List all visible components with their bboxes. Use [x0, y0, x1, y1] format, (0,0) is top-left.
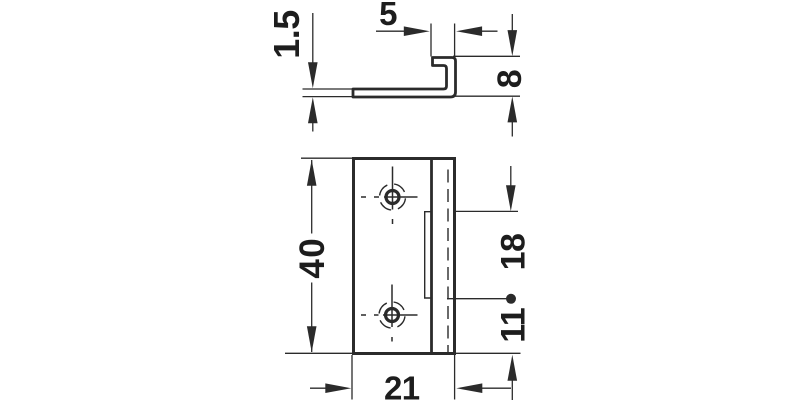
dimension 21: extension line right	[454, 355, 456, 400]
hole bottom: vertical centerline	[391, 285, 393, 328]
dimension 40: dimension line lower segment	[311, 283, 313, 353]
svg-text:1.5: 1.5	[266, 10, 307, 59]
dimension 1.5: dimension line below	[312, 122, 314, 132]
hole top: horizontal centerline	[384, 196, 418, 198]
dimension 5: dimension line left	[376, 30, 406, 32]
svg-text:40: 40	[293, 237, 332, 279]
hole top: vertical centerline dash below	[392, 219, 394, 224]
svg-text:21: 21	[384, 370, 420, 400]
dimension 18/11: shared extension line with dot terminator	[447, 298, 507, 300]
dot terminator	[506, 294, 516, 304]
dimension 5: extension line right	[454, 24, 456, 57]
front view: fold line	[430, 160, 433, 352]
dimension 40: arrow down	[307, 326, 317, 352]
hole bottom: dashed countersink circle	[377, 300, 408, 331]
dimension 18: dimension line above	[510, 166, 512, 187]
dimension 21: dimension line right	[480, 387, 511, 389]
dimension 8: arrow down	[508, 30, 518, 56]
hole top: dashed countersink circle	[377, 182, 408, 213]
hole top: horizontal centerline dashes left	[361, 196, 366, 198]
dimension 21: dimension line left	[310, 387, 327, 389]
hole top: circle	[386, 191, 399, 204]
dimension 1.5: arrow down	[308, 62, 318, 88]
dimension 8: arrow up	[508, 96, 518, 122]
dimension 21: arrow left	[456, 383, 482, 393]
front view: lip rectangle	[425, 212, 432, 298]
svg-text:18: 18	[495, 234, 533, 271]
dimension 18: extension line top	[455, 210, 518, 212]
dimension 8: extension line top	[453, 55, 520, 57]
svg-text:11: 11	[495, 308, 533, 343]
svg-text:5: 5	[379, 0, 397, 32]
dimension 40: arrow up	[307, 160, 317, 186]
dimension 21: arrow right	[325, 383, 351, 393]
dimension 5: extension line left	[430, 24, 432, 57]
dimension 8: dimension line below	[511, 121, 513, 137]
dimension 40: extension line top	[301, 157, 352, 159]
hole bottom: vertical centerline dash below	[391, 337, 393, 342]
hole bottom: circle	[386, 309, 399, 322]
profile view: thick J-channel outline	[353, 58, 456, 98]
svg-text:8: 8	[491, 70, 529, 88]
front view: plate rectangle	[354, 159, 455, 354]
dimension 18: arrow down	[506, 185, 516, 211]
dimension 5: arrow left	[456, 26, 482, 36]
dimension 11: arrow up	[508, 355, 518, 381]
dimension 8: extension line bottom	[453, 95, 520, 97]
hole top: vertical centerline	[392, 167, 394, 210]
dimension 1.5: dimension line above	[312, 13, 314, 64]
dimension 8: dimension line above	[511, 14, 513, 32]
dimension 1.5: arrow up	[308, 97, 318, 123]
dimension 21: extension line left	[351, 355, 353, 400]
dimension 5: arrow right	[404, 26, 430, 36]
hole bottom: horizontal centerline dashes left	[361, 314, 366, 316]
dimension 40: dimension line upper segment	[311, 160, 313, 234]
profile view: thin sheet continuation lines	[303, 88, 356, 90]
front view: hidden edge dashed line	[447, 163, 449, 352]
hole bottom: horizontal centerline	[383, 314, 418, 316]
dimension 5: dimension line right	[480, 30, 498, 32]
dimension 11: dimension line below	[511, 379, 513, 400]
shared bottom extension line	[285, 352, 521, 354]
